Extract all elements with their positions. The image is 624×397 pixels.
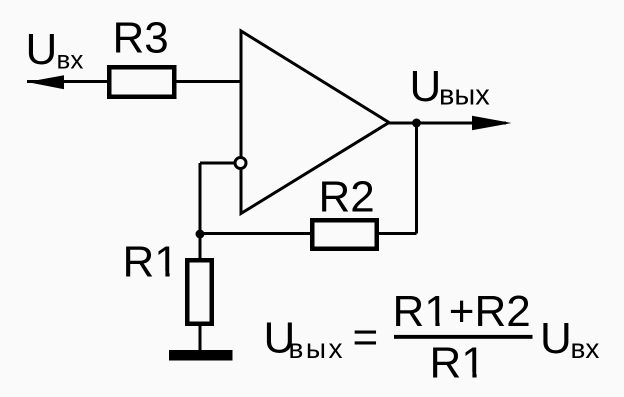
svg-text:вх: вх: [571, 333, 600, 364]
label U vx: [26, 25, 84, 75]
wire junction to R2: [200, 232, 312, 235]
op-amp U1: [241, 31, 389, 214]
formula fraction bar: [394, 335, 533, 339]
wire input (Uvx to R3): [27, 80, 109, 83]
wire inverting input vertical: [199, 163, 202, 234]
svg-text:R1: R1: [430, 339, 486, 388]
wire R3 to op-amp: [176, 80, 241, 83]
svg-text:R1+R2: R1+R2: [393, 287, 531, 336]
wire inverting input horizontal: [200, 162, 240, 165]
node output junction: [412, 119, 421, 128]
resistor R3: [109, 67, 174, 97]
node feedback junction: [196, 230, 205, 239]
formula U vyx: [264, 314, 346, 365]
svg-text:вх: вх: [57, 45, 84, 75]
svg-text:вых: вых: [439, 80, 490, 112]
formula numerator R1+R2: [393, 287, 531, 336]
resistor R1: [187, 260, 212, 324]
wire R2 to output branch: [377, 232, 417, 235]
svg-text:=: =: [353, 313, 379, 362]
wire output: [389, 122, 506, 125]
arrow output (pointing right): [472, 116, 512, 131]
inverting input bubble: [235, 158, 246, 169]
formula denominator R1: [430, 339, 487, 388]
resistor R2: [312, 220, 377, 249]
svg-text:U: U: [410, 62, 442, 111]
svg-text:U: U: [540, 314, 572, 363]
ground: [169, 350, 233, 361]
label U vyx: [410, 62, 491, 112]
svg-text:R1: R1: [123, 238, 179, 287]
svg-text:R3: R3: [113, 14, 169, 63]
label R1: [123, 238, 180, 287]
svg-text:вых: вых: [289, 333, 346, 364]
svg-text:R2: R2: [319, 173, 375, 222]
arrow input (pointing left): [27, 75, 64, 89]
wire R1 vertical: [199, 234, 202, 350]
formula U vx: [540, 314, 599, 364]
wire feedback vertical: [415, 123, 418, 234]
svg-text:U: U: [26, 25, 58, 74]
